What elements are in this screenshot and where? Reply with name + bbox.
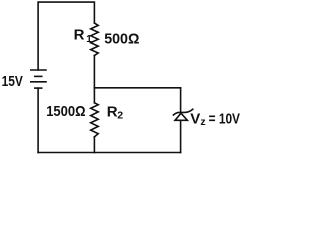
svg-text:= 10V: = 10V	[209, 111, 240, 128]
svg-text:R: R	[74, 27, 85, 44]
svg-text:R: R	[107, 104, 118, 121]
resistor R1	[91, 23, 99, 56]
wire battery - to bottom rail	[37, 88, 39, 152]
zener diode D1 cathode bar	[173, 109, 192, 115]
svg-text:500Ω: 500Ω	[104, 31, 139, 48]
wire bottom rail	[38, 152, 181, 154]
wire R1 bottom to node A	[93, 56, 95, 88]
wire node A down to R2 top	[93, 88, 95, 103]
wire R2 bottom to bottom rail	[93, 137, 95, 153]
svg-text:2: 2	[117, 110, 123, 122]
svg-text:15V: 15V	[2, 73, 23, 90]
svg-text:z: z	[200, 116, 205, 128]
svg-text:1500Ω: 1500Ω	[46, 103, 85, 120]
svg-text:1: 1	[86, 34, 92, 45]
wire node A to zener branch (middle rail)	[94, 87, 180, 89]
battery V1 15V	[30, 70, 47, 88]
svg-text:V: V	[190, 111, 200, 128]
zener diode D1 anode triangle	[175, 113, 187, 120]
wire top (battery + to R1 top)	[38, 2, 94, 70]
wire zener bottom to bottom rail	[180, 120, 182, 152]
resistor R2	[91, 103, 99, 137]
wire zener branch top	[180, 88, 182, 114]
